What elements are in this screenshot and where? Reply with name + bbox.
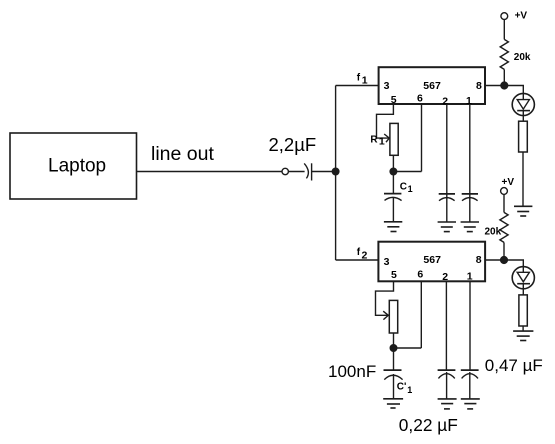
svg-text:0,22 µF: 0,22 µF [399, 415, 458, 435]
capacitor C6 top plate [461, 369, 479, 371]
LED D2 wire into triangle [522, 267, 524, 273]
svg-text:2,2µF: 2,2µF [269, 134, 317, 155]
svg-text:8: 8 [476, 80, 482, 92]
LED D2 triangle [517, 272, 529, 282]
node pin8 U2 junction [501, 257, 508, 264]
wire C1 to ground [392, 198, 394, 222]
node pin5/6 U2 junction [390, 345, 397, 352]
ground C4 [383, 398, 403, 400]
wire C5 to ground [446, 372, 448, 399]
capacitor C1 curved plate [385, 197, 402, 200]
svg-text:2: 2 [442, 271, 448, 283]
wire C4 to ground [393, 374, 395, 399]
svg-text:20k: 20k [514, 52, 531, 63]
node pin5/6 junction [390, 168, 397, 175]
wire +V to R4 [503, 194, 505, 212]
capacitor C1 top plate [384, 193, 401, 195]
svg-text:0,47 µF: 0,47 µF [485, 356, 543, 375]
wire R2 to node [503, 69, 505, 85]
svg-text:567: 567 [423, 254, 441, 266]
svg-text:6: 6 [417, 92, 423, 104]
svg-text:C': C' [397, 382, 407, 393]
capacitor C3 curved plate [462, 198, 478, 201]
wiper arrow R1 [384, 134, 389, 142]
svg-text:2: 2 [362, 250, 368, 262]
wire R3 to ground [522, 152, 524, 206]
wire vertical bus f1-f2 [335, 86, 337, 261]
resistor R3 body [519, 121, 528, 152]
wire laptop to input terminal [137, 171, 283, 173]
svg-text:8: 8 [476, 254, 482, 266]
LED D1 circle [512, 93, 534, 115]
svg-text:Laptop: Laptop [48, 155, 106, 176]
wire pin 8 U2 to node [485, 259, 504, 261]
capacitor C4 top plate [384, 369, 402, 371]
wiper arrow R6 [383, 311, 388, 319]
node pin8 U1 junction [501, 82, 508, 89]
wire node to pin6 line U2 [394, 347, 422, 349]
capacitor 2,2uF curved plate [304, 163, 308, 178]
ground C3 [461, 221, 479, 223]
resistor R5 body [519, 295, 527, 326]
wire node to C4 [393, 348, 395, 370]
node input junction [332, 168, 339, 175]
wire R5 to ground [522, 326, 524, 331]
resistor R1 body [390, 123, 398, 155]
svg-text:100nF: 100nF [328, 362, 376, 381]
svg-text:+V: +V [515, 10, 528, 21]
wire terminal to capacitor [288, 171, 304, 173]
svg-text:5: 5 [391, 269, 397, 281]
svg-text:3: 3 [384, 80, 390, 92]
capacitor C2 curved plate [439, 198, 455, 201]
svg-text:1: 1 [379, 135, 385, 147]
resistor R2 20k zigzag [500, 39, 508, 69]
wire node to C1 [392, 172, 394, 194]
svg-text:1: 1 [407, 385, 412, 395]
wire pin 1 U1 to capacitor [469, 104, 471, 194]
capacitor C4 curved plate [384, 375, 402, 379]
capacitor C3 top plate [462, 193, 478, 195]
svg-text:+V: +V [502, 177, 515, 188]
capacitor C2 top plate [439, 193, 455, 195]
wire node to pin6 line [393, 171, 421, 173]
svg-text:line out: line out [151, 143, 214, 165]
svg-text:20k: 20k [485, 227, 502, 238]
wire node to LED2 [504, 260, 523, 267]
wire capacitor to junction [312, 171, 336, 173]
wire C3 to ground [469, 194, 471, 222]
svg-text:1: 1 [466, 95, 472, 107]
wire pin 6 U2 [420, 281, 422, 348]
LED D1 cathode bar [517, 110, 530, 112]
wire R4 to node [503, 242, 505, 260]
svg-text:567: 567 [423, 80, 441, 92]
terminal +V top [501, 13, 508, 20]
wire LED1 to R3 [522, 111, 524, 122]
wire node to LED1 [504, 86, 523, 94]
wire f2 [336, 259, 379, 261]
terminal +V lower [501, 188, 508, 195]
wire C6 to ground [469, 372, 471, 399]
Laptop box [10, 133, 137, 199]
wire C2 to ground [446, 194, 448, 222]
svg-text:3: 3 [384, 256, 390, 268]
ground R5 [513, 330, 533, 332]
ground C2 [438, 221, 456, 223]
resistor R6 body [389, 300, 397, 333]
wire pin 1 U2 to capacitor [469, 281, 471, 370]
LED D1 wire into triangle [522, 93, 524, 99]
wire R1 to node [392, 155, 394, 171]
IC U1 567 tone decoder box [379, 67, 485, 104]
wire pin 8 U1 to node [485, 85, 504, 87]
resistor R4 20k zigzag [500, 212, 508, 242]
svg-text:1: 1 [408, 184, 413, 194]
wire f1 [336, 85, 379, 87]
LED D2 cathode bar [517, 283, 530, 285]
svg-text:1: 1 [362, 75, 368, 87]
svg-text:R: R [370, 134, 378, 145]
capacitor C5 curved plate [438, 374, 454, 379]
ground C1 [384, 221, 402, 223]
wire LED2 to R5 [522, 284, 524, 295]
ground R3 [514, 205, 532, 207]
capacitor 2,2uF straight plate [311, 163, 313, 180]
ground C5 [438, 398, 457, 400]
svg-text:6: 6 [417, 269, 423, 281]
wire pin 6 U1 [421, 104, 423, 172]
IC U2 567 tone decoder box [378, 242, 485, 282]
wire pin 2 U2 to capacitor [445, 281, 447, 370]
wire pin5 U1 to wiper [377, 104, 394, 138]
wire pin 2 U1 to capacitor [446, 104, 448, 194]
wire pin5 U2 to wiper [376, 281, 394, 315]
LED D1 triangle [517, 100, 529, 110]
capacitor C6 curved plate [462, 374, 478, 379]
wire +V to R2 [503, 20, 505, 40]
ground C6 [461, 398, 480, 400]
input terminal circle [282, 168, 288, 174]
svg-text:1: 1 [467, 271, 473, 283]
LED D2 circle [512, 267, 534, 289]
svg-text:C: C [400, 182, 407, 193]
capacitor C5 top plate [438, 369, 456, 371]
wire R6 to node [393, 333, 395, 348]
